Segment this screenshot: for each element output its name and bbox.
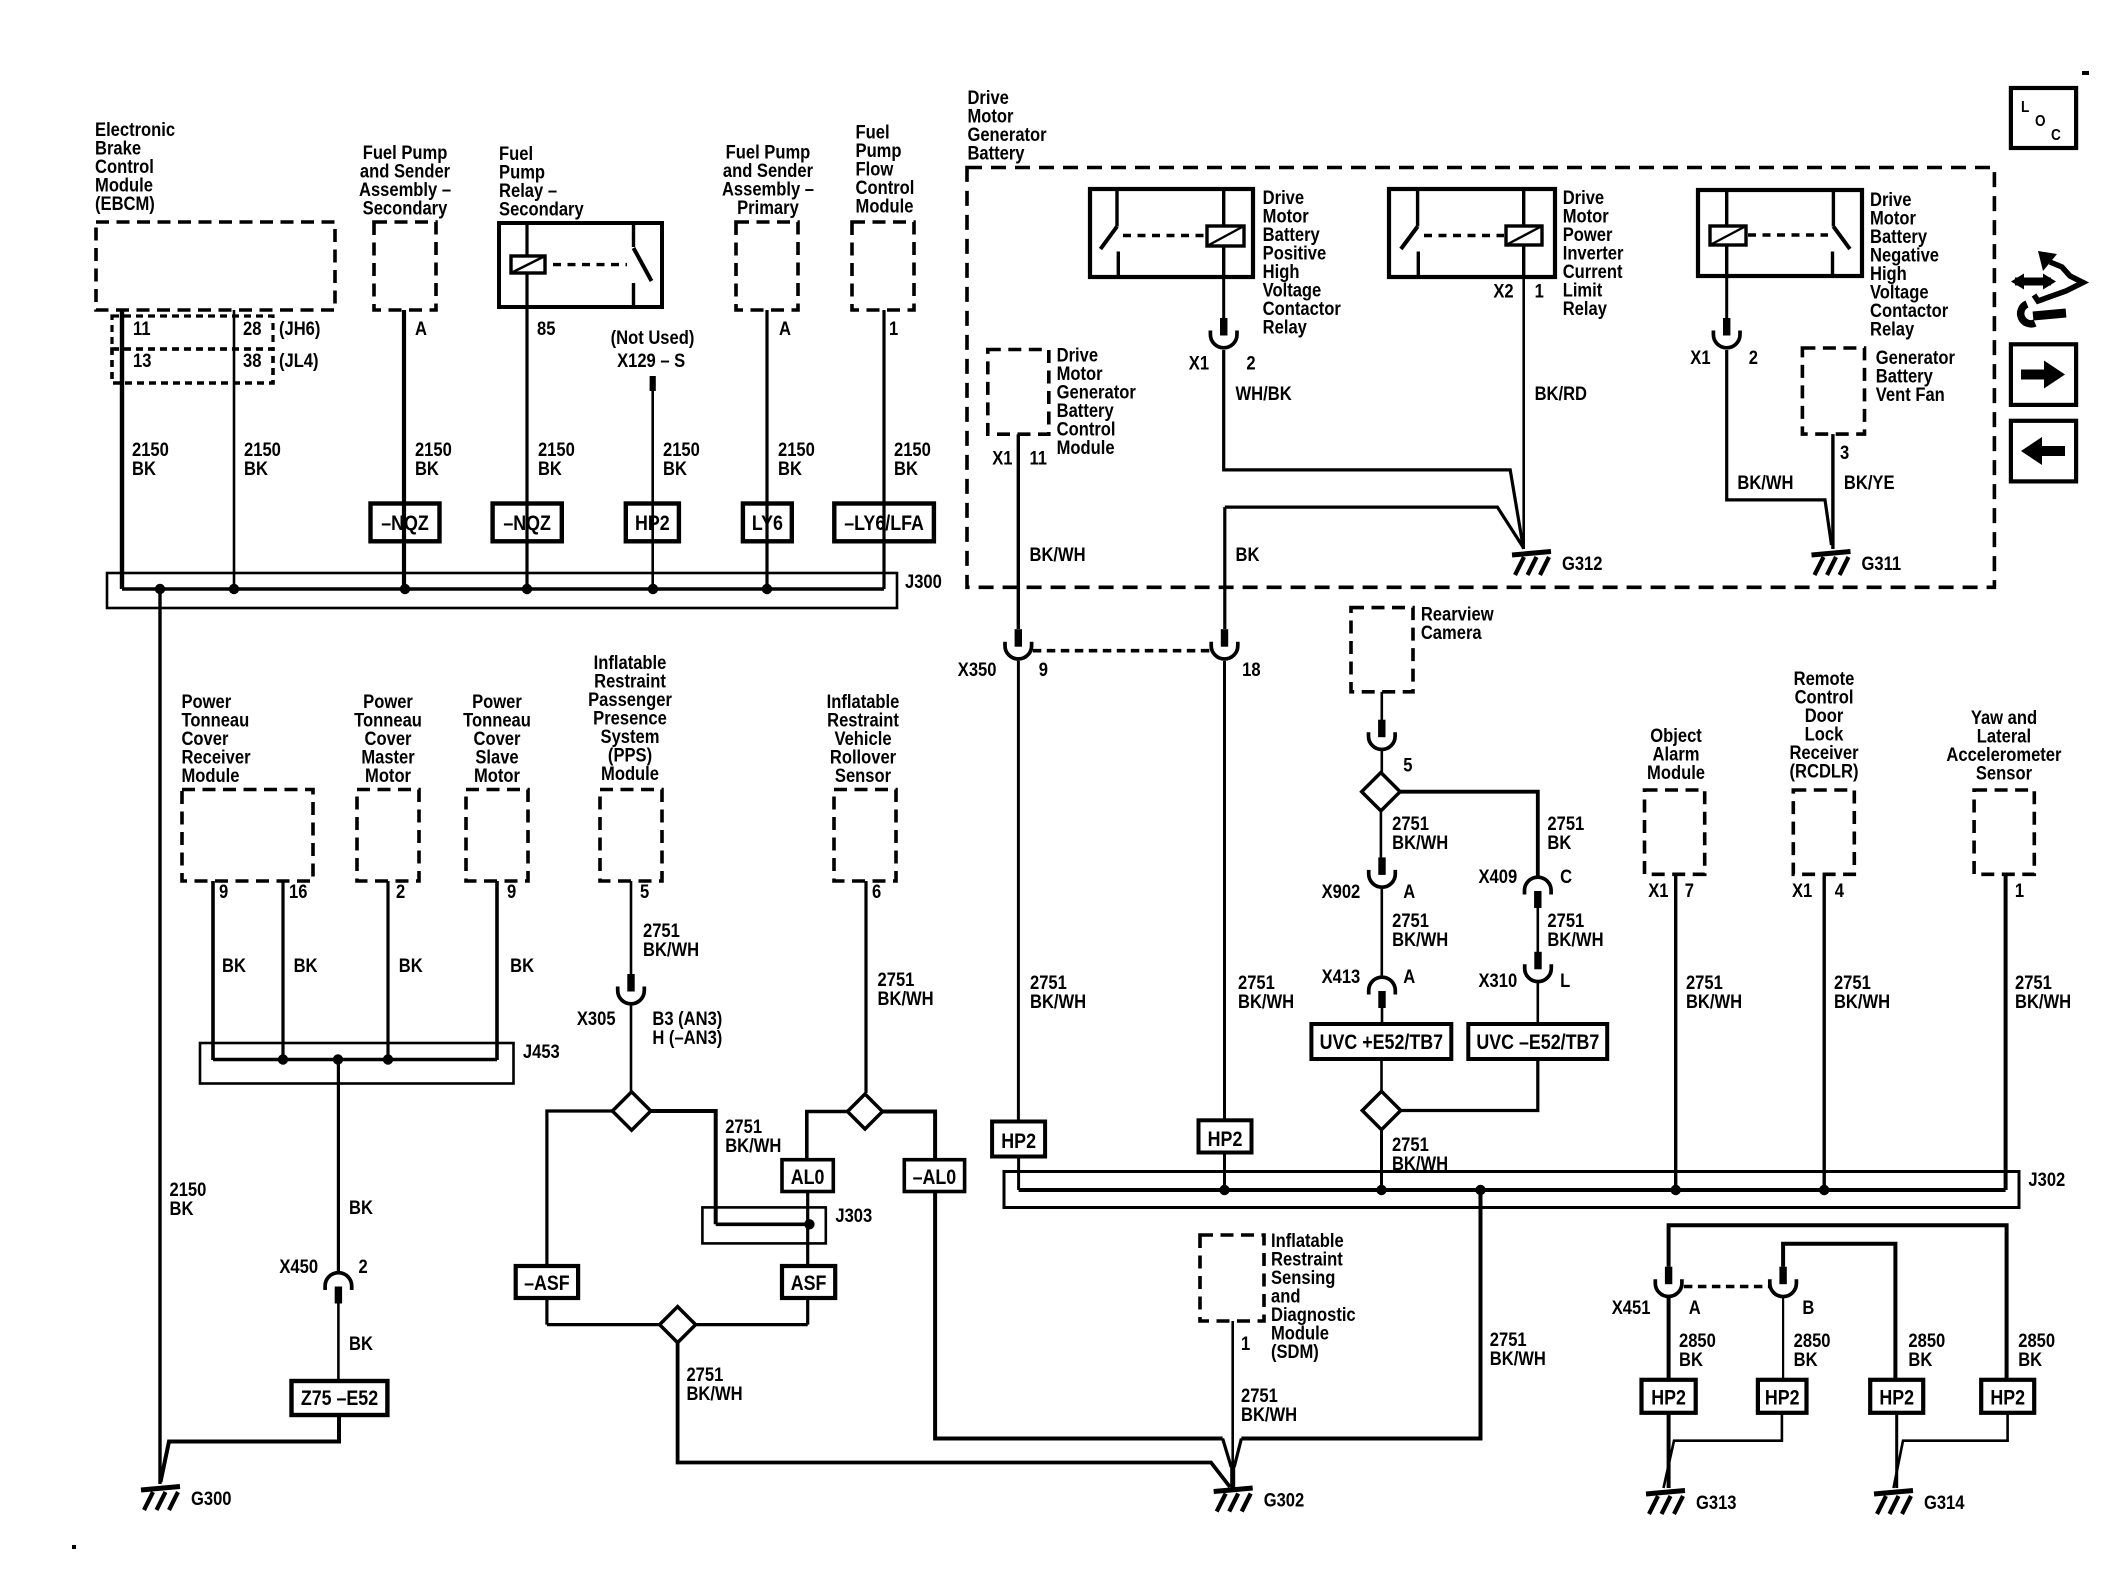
svg-text:BK: BK bbox=[2018, 1349, 2042, 1371]
svg-text:G302: G302 bbox=[1264, 1489, 1305, 1511]
svg-text:(SDM): (SDM) bbox=[1271, 1341, 1319, 1363]
svg-text:Motor: Motor bbox=[365, 765, 411, 787]
svg-text:BK: BK bbox=[1547, 832, 1571, 854]
svg-text:HP2: HP2 bbox=[1879, 1386, 1914, 1410]
svg-text:BK/YE: BK/YE bbox=[1844, 472, 1895, 494]
svg-text:BK/WH: BK/WH bbox=[1547, 929, 1603, 951]
svg-text:HP2: HP2 bbox=[1651, 1386, 1686, 1410]
svg-text:G300: G300 bbox=[191, 1488, 232, 1510]
svg-text:AL0: AL0 bbox=[791, 1166, 825, 1190]
svg-text:11: 11 bbox=[133, 318, 151, 340]
svg-text:Vent Fan: Vent Fan bbox=[1876, 384, 1945, 406]
svg-text:5: 5 bbox=[640, 881, 649, 903]
svg-text:Motor: Motor bbox=[474, 765, 520, 787]
svg-text:X450: X450 bbox=[279, 1256, 318, 1278]
svg-text:X1: X1 bbox=[1690, 347, 1710, 369]
svg-text:X1: X1 bbox=[1189, 352, 1209, 374]
svg-text:L: L bbox=[1560, 970, 1570, 992]
svg-text:16: 16 bbox=[289, 881, 307, 903]
svg-text:2: 2 bbox=[1246, 352, 1255, 374]
svg-text:BK/WH: BK/WH bbox=[1834, 991, 1890, 1013]
svg-text:18: 18 bbox=[1242, 659, 1260, 681]
svg-text:(Not Used): (Not Used) bbox=[611, 327, 695, 349]
svg-text:X409: X409 bbox=[1478, 866, 1517, 888]
svg-text:4: 4 bbox=[1835, 880, 1844, 902]
svg-text:B: B bbox=[1802, 1297, 1814, 1319]
svg-text:BK/WH: BK/WH bbox=[643, 939, 699, 961]
svg-text:ASF: ASF bbox=[791, 1272, 827, 1296]
svg-text:X1: X1 bbox=[992, 447, 1012, 469]
svg-text:BK/WH: BK/WH bbox=[1030, 991, 1086, 1013]
svg-text:J303: J303 bbox=[835, 1205, 872, 1227]
svg-text:BK/WH: BK/WH bbox=[1392, 929, 1448, 951]
svg-text:BK: BK bbox=[349, 1333, 373, 1355]
svg-text:J453: J453 bbox=[523, 1041, 560, 1063]
svg-text:A: A bbox=[1403, 966, 1415, 988]
svg-text:HP2: HP2 bbox=[1765, 1386, 1800, 1410]
svg-text:WH/BK: WH/BK bbox=[1236, 383, 1292, 405]
svg-text:Sensor: Sensor bbox=[1976, 762, 2032, 784]
svg-text:Module: Module bbox=[601, 763, 659, 785]
svg-text:BK/WH: BK/WH bbox=[1686, 991, 1742, 1013]
svg-text:X1: X1 bbox=[1648, 880, 1668, 902]
svg-text:BK: BK bbox=[244, 458, 268, 480]
svg-text:–AL0: –AL0 bbox=[913, 1166, 957, 1190]
svg-text:6: 6 bbox=[872, 881, 881, 903]
svg-text:HP2: HP2 bbox=[1990, 1386, 2025, 1410]
svg-text:UVC +E52/TB7: UVC +E52/TB7 bbox=[1320, 1031, 1443, 1055]
svg-text:BK/WH: BK/WH bbox=[1490, 1348, 1546, 1370]
svg-text:Module: Module bbox=[1057, 437, 1115, 459]
svg-text:G314: G314 bbox=[1924, 1492, 1965, 1514]
svg-text:Relay: Relay bbox=[1870, 318, 1914, 340]
svg-text:H (–AN3): H (–AN3) bbox=[652, 1027, 722, 1049]
svg-text:BK: BK bbox=[1236, 544, 1260, 566]
svg-text:9: 9 bbox=[1039, 659, 1048, 681]
svg-text:L: L bbox=[2021, 99, 2029, 116]
svg-text:X902: X902 bbox=[1322, 881, 1361, 903]
svg-text:Module: Module bbox=[181, 765, 239, 787]
svg-text:1: 1 bbox=[1535, 280, 1544, 302]
svg-text:BK/WH: BK/WH bbox=[2015, 991, 2071, 1013]
svg-text:Secondary: Secondary bbox=[499, 198, 584, 220]
svg-text:G311: G311 bbox=[1862, 553, 1902, 575]
svg-text:(JH6): (JH6) bbox=[279, 318, 320, 340]
svg-text:A: A bbox=[1403, 881, 1415, 903]
svg-text:Relay: Relay bbox=[1263, 316, 1307, 338]
svg-text:BK/WH: BK/WH bbox=[686, 1383, 742, 1405]
svg-text:–LY6/LFA: –LY6/LFA bbox=[844, 512, 924, 536]
svg-text:28: 28 bbox=[243, 318, 261, 340]
svg-text:Primary: Primary bbox=[737, 197, 799, 219]
svg-text:X451: X451 bbox=[1612, 1297, 1651, 1319]
svg-text:11: 11 bbox=[1030, 447, 1048, 469]
svg-text:BK/WH: BK/WH bbox=[725, 1135, 781, 1157]
svg-text:(RCDLR): (RCDLR) bbox=[1790, 760, 1859, 782]
svg-text:2: 2 bbox=[396, 881, 405, 903]
svg-text:BK/WH: BK/WH bbox=[1238, 991, 1294, 1013]
svg-text:A: A bbox=[415, 318, 427, 340]
svg-text:X310: X310 bbox=[1478, 970, 1517, 992]
svg-text:J300: J300 bbox=[905, 571, 942, 593]
svg-text:Z75 –E52: Z75 –E52 bbox=[301, 1387, 378, 1411]
svg-text:A: A bbox=[1689, 1297, 1701, 1319]
svg-text:Sensor: Sensor bbox=[835, 765, 891, 787]
svg-text:BK/WH: BK/WH bbox=[1241, 1404, 1297, 1426]
svg-text:G312: G312 bbox=[1562, 553, 1603, 575]
svg-text:Module: Module bbox=[856, 195, 914, 217]
svg-text:BK: BK bbox=[415, 458, 439, 480]
svg-text:5: 5 bbox=[1403, 754, 1412, 776]
svg-text:1: 1 bbox=[1241, 1333, 1250, 1355]
svg-text:1: 1 bbox=[889, 318, 898, 340]
svg-text:1: 1 bbox=[2015, 880, 2024, 902]
svg-text:X350: X350 bbox=[958, 659, 997, 681]
svg-text:BK: BK bbox=[222, 955, 246, 977]
svg-text:2: 2 bbox=[1749, 347, 1758, 369]
svg-text:2: 2 bbox=[359, 1256, 368, 1278]
svg-text:–ASF: –ASF bbox=[524, 1272, 570, 1296]
svg-text:BK/WH: BK/WH bbox=[1392, 1153, 1448, 1175]
svg-text:BK: BK bbox=[169, 1198, 193, 1220]
svg-text:HP2: HP2 bbox=[1001, 1130, 1036, 1154]
svg-text:HP2: HP2 bbox=[635, 512, 670, 536]
svg-text:–NQZ: –NQZ bbox=[503, 512, 551, 536]
svg-text:LY6: LY6 bbox=[752, 512, 783, 536]
svg-text:Relay: Relay bbox=[1563, 298, 1607, 320]
svg-text:X2: X2 bbox=[1493, 280, 1513, 302]
svg-text:BK: BK bbox=[349, 1197, 373, 1219]
svg-text:BK/WH: BK/WH bbox=[1737, 472, 1793, 494]
svg-text:–NQZ: –NQZ bbox=[381, 512, 429, 536]
svg-text:J302: J302 bbox=[2028, 1169, 2065, 1191]
svg-text:A: A bbox=[779, 318, 791, 340]
svg-text:BK: BK bbox=[1679, 1349, 1703, 1371]
svg-text:BK/WH: BK/WH bbox=[1392, 832, 1448, 854]
svg-text:X413: X413 bbox=[1322, 966, 1361, 988]
svg-text:BK: BK bbox=[538, 458, 562, 480]
svg-text:Camera: Camera bbox=[1421, 622, 1483, 644]
svg-text:BK: BK bbox=[663, 458, 687, 480]
svg-text:3: 3 bbox=[1840, 442, 1849, 464]
svg-text:O: O bbox=[2035, 113, 2046, 130]
svg-text:Battery: Battery bbox=[967, 142, 1024, 164]
svg-text:BK/WH: BK/WH bbox=[1030, 544, 1086, 566]
svg-text:BK: BK bbox=[894, 458, 918, 480]
svg-text:13: 13 bbox=[133, 350, 151, 372]
svg-text:9: 9 bbox=[507, 881, 516, 903]
svg-text:BK: BK bbox=[399, 955, 423, 977]
svg-text:HP2: HP2 bbox=[1208, 1128, 1243, 1152]
svg-text:X129 – S: X129 – S bbox=[617, 350, 685, 372]
svg-text:BK: BK bbox=[132, 458, 156, 480]
svg-text:X305: X305 bbox=[577, 1008, 616, 1030]
svg-text:(JL4): (JL4) bbox=[279, 350, 319, 372]
svg-text:G313: G313 bbox=[1696, 1492, 1737, 1514]
svg-text:X1: X1 bbox=[1792, 880, 1812, 902]
svg-text:(EBCM): (EBCM) bbox=[95, 193, 155, 215]
svg-text:Secondary: Secondary bbox=[363, 197, 448, 219]
svg-text:9: 9 bbox=[219, 881, 228, 903]
svg-text:85: 85 bbox=[537, 318, 555, 340]
svg-text:BK/RD: BK/RD bbox=[1535, 383, 1587, 405]
svg-text:BK: BK bbox=[1908, 1349, 1932, 1371]
svg-text:C: C bbox=[2051, 127, 2061, 144]
svg-text:7: 7 bbox=[1685, 880, 1694, 902]
svg-text:UVC –E52/TB7: UVC –E52/TB7 bbox=[1476, 1031, 1599, 1055]
svg-text:BK: BK bbox=[294, 955, 318, 977]
svg-text:BK: BK bbox=[1794, 1349, 1818, 1371]
svg-text:Module: Module bbox=[1647, 762, 1705, 784]
svg-text:38: 38 bbox=[243, 350, 261, 372]
svg-text:BK/WH: BK/WH bbox=[878, 988, 934, 1010]
svg-text:C: C bbox=[1560, 866, 1572, 888]
svg-text:BK: BK bbox=[510, 955, 534, 977]
svg-text:BK: BK bbox=[778, 458, 802, 480]
